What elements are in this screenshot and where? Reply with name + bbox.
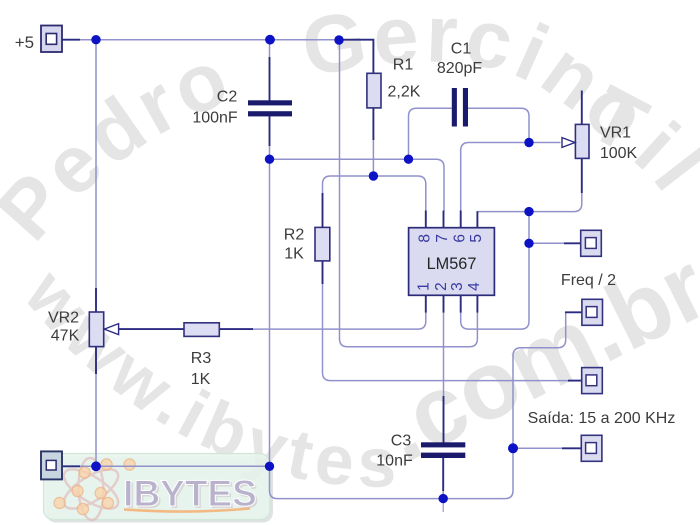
svg-text:6: 6 xyxy=(451,234,468,243)
wire R1 bottom to pin8 row xyxy=(372,139,374,176)
wire IC pin 2 lead xyxy=(443,295,445,312)
svg-text:10nF: 10nF xyxy=(376,453,413,470)
wire ground terminal stub xyxy=(62,465,80,467)
wire R1 bottom lead xyxy=(372,108,374,141)
node ground mid xyxy=(265,462,274,471)
node rail-C2 xyxy=(265,35,275,45)
node C2 bottom xyxy=(265,155,274,164)
node R1 bottom xyxy=(369,171,378,180)
svg-text:3: 3 xyxy=(449,282,466,291)
wire IC pin 8 lead xyxy=(425,211,427,228)
wire ground rail bottom left xyxy=(79,465,270,467)
svg-text:R3: R3 xyxy=(191,350,212,367)
wire IC pin 6 lead xyxy=(460,211,462,228)
wire node C2-bottom to C1-left riser row xyxy=(270,158,409,160)
wire VR1 bottom to pin5 row xyxy=(529,192,582,212)
svg-text:C3: C3 xyxy=(391,433,412,450)
potentiometer VR1 wiper arrow xyxy=(562,138,575,148)
wire IC pin 3 lead xyxy=(460,295,462,312)
svg-text:5: 5 xyxy=(468,234,485,243)
wire R3 right lead xyxy=(219,328,253,330)
junction dots layer xyxy=(91,35,534,504)
wire node column between pin5 row and terminal row xyxy=(528,212,530,244)
labels layer xyxy=(15,33,676,470)
node rail-pin4branch xyxy=(334,35,343,44)
wire terminal row stub xyxy=(529,242,565,244)
svg-text:VR2: VR2 xyxy=(48,310,79,327)
node terminal row 1 xyxy=(524,239,533,248)
node C3 bottom xyxy=(439,494,448,503)
terminal saida xyxy=(581,435,602,461)
wire terminal row 1 stub xyxy=(564,242,581,244)
dark leads layer xyxy=(62,40,582,491)
wire VR2 arrow to R3 xyxy=(119,328,185,330)
wire VR2 top lead xyxy=(95,288,97,312)
wire saida node to saida terminal xyxy=(513,447,563,449)
wire C2 bottom lead xyxy=(269,116,271,146)
svg-text:1K: 1K xyxy=(284,246,304,263)
ibytes logo atom icon xyxy=(58,458,124,521)
wire C2-bottom node long vertical to ground corner xyxy=(270,159,444,498)
wire pin8 row R2-top to pin8 riser xyxy=(323,176,426,211)
wire layer xyxy=(78,40,582,512)
wire pin6 riser to wiper node xyxy=(461,143,529,212)
wire IC pin 1 lead xyxy=(425,295,427,312)
svg-text:+5: +5 xyxy=(15,33,34,52)
svg-text:820pF: 820pF xyxy=(437,60,483,77)
svg-text:1K: 1K xyxy=(191,371,211,388)
wire saida node to freq2 terminal zigzag xyxy=(513,312,578,448)
svg-text:8: 8 xyxy=(416,234,433,243)
ibytes logo atom electrons xyxy=(54,459,135,515)
potentiometer VR1 body xyxy=(575,124,589,158)
ibytes logo watermark box xyxy=(46,457,273,523)
svg-text:VR1: VR1 xyxy=(600,125,631,142)
wire C3 bottom to ground bus xyxy=(442,483,444,499)
svg-text:2,2K: 2,2K xyxy=(388,84,421,101)
wire R2 top lead xyxy=(322,193,324,228)
node VR1 wiper xyxy=(524,138,533,147)
potentiometer VR2 body xyxy=(89,312,103,347)
wire saida terminal stub xyxy=(562,447,581,449)
wire VR1 bottom lead xyxy=(581,158,583,193)
svg-text:R1: R1 xyxy=(393,57,414,74)
wire pin5 row to pin5 riser xyxy=(477,211,529,213)
resistor R2 xyxy=(315,227,330,261)
svg-text:R2: R2 xyxy=(284,227,305,244)
wire left vertical from +5 rail to VR2 xyxy=(95,40,97,290)
capacitor C2 xyxy=(248,100,292,116)
wire C3 top lead xyxy=(443,396,445,443)
terminal output mid xyxy=(582,368,603,394)
terminal Freq/2 xyxy=(582,299,603,325)
wire top rail branch down to pin4 row xyxy=(340,40,478,347)
wire wiper node to VR1 arrow xyxy=(529,142,561,144)
wire VR2 bottom to ground rail xyxy=(95,373,97,466)
node pin5 row xyxy=(524,207,533,216)
wire C3 bottom lead xyxy=(442,458,444,492)
wire output terminal stub xyxy=(568,380,582,382)
resistor R1 xyxy=(367,73,381,108)
wire C1 right to wiper node riser xyxy=(468,108,529,142)
wire +5 rail top xyxy=(78,39,373,41)
wire node column down to pin3 row xyxy=(461,243,529,329)
wire VR1 top stub xyxy=(581,91,583,125)
node saida xyxy=(508,443,518,453)
wire node row to pin7 riser xyxy=(409,159,445,211)
wire R3 row to pin1 riser xyxy=(252,312,426,329)
logo layer xyxy=(44,454,273,523)
node C1 left xyxy=(404,155,413,164)
wire R2 bottom to output terminal row xyxy=(323,283,570,381)
svg-text:4: 4 xyxy=(466,282,483,291)
terminal +5 xyxy=(41,26,62,53)
svg-text:2: 2 xyxy=(433,282,450,291)
svg-text:C1: C1 xyxy=(451,41,472,58)
svg-text:47K: 47K xyxy=(51,328,80,345)
svg-text:7: 7 xyxy=(434,234,451,243)
svg-text:C2: C2 xyxy=(217,89,238,106)
capacitor C3 xyxy=(421,442,465,458)
svg-text:LM567: LM567 xyxy=(427,255,477,273)
resistor R3 xyxy=(184,323,219,337)
wire VR2 bottom lead xyxy=(95,346,97,374)
wire C2 branch down from rail xyxy=(269,40,271,58)
wire freq2 terminal stub xyxy=(565,311,582,313)
wire stub below C3 ground node xyxy=(442,499,444,512)
svg-text:Freq / 2: Freq / 2 xyxy=(561,272,616,289)
wire C2 bottom to node row xyxy=(269,145,271,159)
node ground left xyxy=(91,461,101,471)
node rail-left xyxy=(91,35,100,44)
svg-text:1: 1 xyxy=(415,282,432,291)
wire IC pin 7 lead xyxy=(443,211,445,228)
terminal node row 1 right xyxy=(581,230,602,256)
wire R2 bottom lead xyxy=(322,261,324,285)
potentiometer VR2 wiper arrow xyxy=(104,324,118,335)
capacitor C1 xyxy=(452,88,468,127)
svg-text:IBYTES: IBYTES xyxy=(123,473,257,514)
components layer xyxy=(41,26,603,480)
svg-text:100nF: 100nF xyxy=(192,110,238,127)
terminal ground bottom left xyxy=(41,451,62,479)
IC U1 LM567 body xyxy=(409,228,495,296)
wire ground bus to saida node riser xyxy=(443,448,513,498)
wire C2 top lead xyxy=(269,57,271,101)
ibytes logo underline swash xyxy=(124,509,250,512)
svg-text:100K: 100K xyxy=(600,145,638,162)
svg-text:Saída: 15 a 200 KHz: Saída: 15 a 200 KHz xyxy=(528,410,676,427)
wire IC pin 4 lead xyxy=(476,295,478,312)
wire R1 top lead xyxy=(341,40,373,74)
wire +5 terminal stub xyxy=(62,39,80,41)
wire pin2 column to C3 xyxy=(443,312,445,401)
wire C1 left riser xyxy=(409,108,452,159)
wire IC pin 5 lead xyxy=(476,211,478,228)
